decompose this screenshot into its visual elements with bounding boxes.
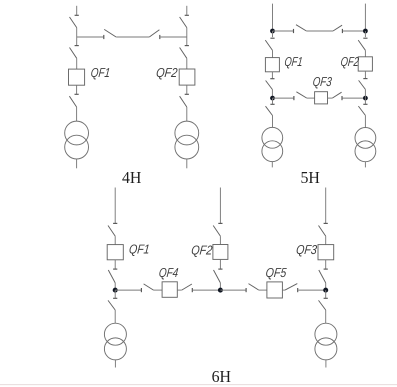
transformer T 6H right: [315, 323, 337, 345]
disconnect switch 6H right bus-side (blade): [319, 270, 326, 283]
disconnect switch 6H left bus-side (blade): [108, 270, 115, 283]
circuit breaker QF2 (4H): [179, 69, 195, 85]
disconnect switch 6H QF4 right (contact tick): [191, 288, 193, 292]
wire 5H left to transformer: [272, 116, 274, 128]
circuit breaker QF1 (5H): [265, 58, 279, 72]
wire 5H right below lower node: [364, 98, 366, 104]
disconnect switch 4H left upper (blade): [70, 17, 77, 28]
disconnect switch 6H right upper (blade): [319, 226, 326, 237]
wire 6H left below breaker: [114, 260, 116, 269]
wire 5H upper tie right segment: [343, 30, 366, 32]
disconnect switch 4H tie left (contact tick): [103, 35, 105, 39]
wire 4H left transformer tail: [76, 159, 78, 168]
wire 6H into QF5: [259, 289, 267, 291]
wire 4H tie middle segment: [116, 36, 149, 38]
disconnect switch 5H right upper (contact tick): [363, 37, 367, 39]
node 5H lower-right junction: [363, 96, 368, 101]
node 6H middle bus junction: [218, 288, 223, 293]
wire 4H right to tie node: [186, 28, 188, 46]
wire 5H right below QF2: [364, 71, 366, 78]
wire 6H middle incoming feeder: [219, 188, 221, 224]
wire 6H left to transformer: [114, 310, 116, 323]
wire 6H bus left-middle segment: [193, 289, 221, 291]
circuit breaker QF1 (4H): [69, 69, 85, 85]
transformer T 5H right: [355, 127, 376, 148]
svg-text:QF1: QF1: [284, 54, 304, 69]
svg-text:QF3: QF3: [312, 74, 333, 89]
disconnect switch 5H upper tie left (contact tick): [293, 29, 295, 33]
wire 4H right below breaker: [186, 85, 188, 94]
svg-text:QF1: QF1: [90, 65, 111, 80]
disconnect switch 5H right lower (blade): [358, 106, 365, 115]
wire 5H right into QF2: [364, 50, 366, 57]
wire 5H lower tie left segment: [273, 97, 294, 99]
disconnect switch 5H upper tie right (contact tick): [341, 29, 343, 33]
wire 6H right below bus node: [325, 290, 327, 298]
disconnect switch 5H lower tie right (contact tick): [341, 96, 343, 100]
wire 4H left below breaker: [76, 85, 78, 94]
circuit breaker QF3 (5H): [315, 92, 328, 104]
svg-text:QF2: QF2: [155, 65, 178, 80]
wire 4H left to tie node: [76, 28, 78, 46]
wire 4H right into breaker: [186, 58, 188, 69]
wire 6H middle into breaker: [219, 236, 221, 245]
wire 5H right below upper node: [364, 31, 366, 37]
disconnect switch 6H right bus-side (contact tick): [324, 268, 328, 270]
wire 6H bus right segment: [298, 289, 325, 291]
disconnect switch 5H lower tie right (blade): [332, 92, 341, 98]
wire 6H into QF4: [154, 289, 163, 291]
wire 5H lower tie out of QF3: [328, 97, 333, 99]
wire 6H left into breaker: [114, 236, 116, 245]
disconnect switch 6H left upper (contact tick): [113, 222, 117, 224]
circuit breaker QF3 (6H): [318, 245, 334, 260]
wire 5H lower tie right segment: [343, 97, 366, 99]
disconnect switch 6H QF5 right (contact tick): [297, 288, 299, 292]
node 5H upper-left junction: [270, 29, 275, 34]
svg-text:QF1: QF1: [128, 241, 150, 256]
circuit breaker QF2 (5H): [358, 57, 372, 71]
disconnect switch 5H right middle (contact tick): [363, 78, 367, 80]
wire 4H left incoming stub: [76, 6, 78, 15]
disconnect switch 5H left upper (contact tick): [270, 37, 274, 39]
wire 6H left incoming feeder: [114, 188, 116, 224]
wire 6H out of QF4: [177, 289, 181, 291]
wire 4H left into breaker: [76, 58, 78, 69]
disconnect switch 6H right transformer-side (blade): [319, 300, 326, 310]
disconnect switch 4H right upper (contact tick): [185, 14, 189, 16]
disconnect switch 4H right lower (blade): [180, 48, 187, 59]
disconnect switch 4H right transformer-side (blade): [180, 96, 187, 107]
circuit breaker QF5 (6H): [267, 282, 283, 298]
disconnect switch 6H left bus-side (contact tick): [113, 268, 117, 270]
svg-text:6H: 6H: [212, 367, 231, 386]
disconnect switch 6H QF4 left (contact tick): [140, 288, 142, 292]
wire 5H left to lower node: [271, 90, 273, 99]
disconnect switch 4H tie left (blade): [104, 29, 116, 37]
disconnect switch 6H middle bus-side (blade): [214, 270, 221, 283]
wire 5H lower tie into QF3: [307, 97, 315, 99]
disconnect switch 5H upper tie right (blade): [333, 25, 342, 31]
disconnect switch 4H right transformer-side (contact tick): [185, 93, 189, 95]
svg-text:4H: 4H: [122, 168, 141, 187]
disconnect switch 6H middle upper (blade): [213, 226, 220, 237]
wire 5H right incoming stub: [364, 4, 366, 31]
disconnect switch 4H left lower (contact tick): [75, 45, 79, 47]
wire 6H right below breaker: [325, 260, 327, 269]
disconnect switch 5H upper tie left (blade): [296, 25, 306, 31]
node 6H right bus junction: [323, 288, 328, 293]
disconnect switch 6H right upper (contact tick): [324, 222, 328, 224]
wire 4H right incoming stub: [186, 6, 188, 15]
svg-text:QF2: QF2: [191, 242, 214, 257]
transformer T 6H left: [104, 323, 126, 345]
disconnect switch 5H left upper (blade): [265, 40, 272, 50]
wire 5H left incoming stub: [272, 4, 274, 31]
wire 5H left below QF1: [271, 72, 273, 79]
node 6H left bus junction: [113, 288, 118, 293]
disconnect switch 6H left upper (blade): [108, 226, 115, 237]
disconnect switch 5H left middle (blade): [266, 81, 273, 90]
wire 6H left below bus node: [114, 290, 116, 298]
wire 5H left below lower node: [272, 98, 274, 104]
wire 5H upper tie middle segment: [306, 30, 333, 32]
disconnect switch 4H tie right (contact tick): [159, 35, 161, 39]
wire 6H out of QF5: [282, 289, 285, 291]
disconnect switch 5H left lower (blade): [266, 106, 273, 115]
wire 6H right incoming feeder: [325, 188, 327, 224]
disconnect switch 6H left transformer-side (contact tick): [113, 297, 117, 299]
wire 4H right to transformer: [186, 107, 188, 121]
wire 4H left to transformer: [76, 107, 78, 121]
wire 4H right transformer tail: [186, 159, 188, 168]
wire 6H middle to bus node: [219, 283, 221, 290]
transformer T 4H right: [175, 121, 199, 145]
wire 6H middle below breaker: [219, 259, 221, 268]
disconnect switch 6H QF5 right (blade): [285, 284, 297, 291]
wire 6H left to bus node: [114, 283, 116, 290]
disconnect switch 6H right transformer-side (contact tick): [324, 297, 328, 299]
wire 6H right into breaker: [325, 236, 327, 245]
svg-text:QF2: QF2: [340, 54, 360, 69]
disconnect switch 4H left transformer-side (contact tick): [75, 93, 79, 95]
wire 5H right to transformer: [364, 115, 366, 127]
disconnect switch 5H lower tie left (blade): [296, 92, 306, 98]
wire 5H right to lower node: [364, 89, 366, 98]
wire 6H bus left segment: [115, 289, 141, 291]
wire 4H tie right segment: [160, 36, 187, 38]
wire 5H left transformer tail: [271, 162, 273, 168]
node 5H lower-left junction: [270, 96, 275, 101]
disconnect switch 4H left transformer-side (blade): [69, 96, 76, 107]
wire 5H left into QF1: [272, 50, 274, 57]
svg-text:QF4: QF4: [158, 265, 179, 280]
circuit breaker QF4 (6H): [162, 282, 177, 298]
disconnect switch 5H left lower (contact tick): [270, 103, 274, 105]
bottom faint rule: [0, 384, 397, 386]
disconnect switch 6H middle bus-side (contact tick): [218, 268, 222, 270]
disconnect switch 6H QF4 right (blade): [182, 284, 192, 290]
disconnect switch 5H lower tie left (contact tick): [293, 96, 295, 100]
disconnect switch 4H left upper (contact tick): [75, 14, 79, 16]
wire 6H right transformer tail: [325, 360, 327, 368]
wire 5H right transformer tail: [364, 162, 366, 168]
disconnect switch 5H left middle (contact tick): [270, 78, 274, 80]
disconnect switch 6H QF4 left (blade): [144, 284, 154, 290]
wire 6H right to bus node: [325, 283, 327, 290]
transformer T 5H left: [262, 127, 283, 148]
transformer T 4H left: [65, 121, 89, 145]
disconnect switch 6H QF5 left (blade): [249, 284, 259, 291]
svg-text:5H: 5H: [301, 168, 320, 187]
wire 5H left below upper node: [272, 31, 274, 37]
disconnect switch 4H right upper (blade): [180, 17, 187, 28]
wire 6H left transformer tail: [114, 360, 116, 368]
wire 6H right to transformer: [325, 310, 327, 323]
disconnect switch 5H right upper (blade): [358, 40, 365, 50]
disconnect switch 5H right middle (blade): [359, 80, 366, 89]
wire 6H bus middle segment: [220, 289, 246, 291]
disconnect switch 5H right lower (contact tick): [363, 103, 367, 105]
wire 5H upper tie left segment: [273, 30, 294, 32]
disconnect switch 6H left transformer-side (blade): [108, 300, 115, 310]
circuit breaker QF1 (6H): [107, 245, 123, 260]
disconnect switch 4H right lower (contact tick): [185, 45, 189, 47]
node 5H upper-right junction: [363, 29, 368, 34]
disconnect switch 6H middle upper (contact tick): [218, 222, 222, 224]
disconnect switch 4H left lower (blade): [70, 48, 77, 59]
svg-text:QF3: QF3: [295, 242, 318, 257]
wire 4H tie left segment: [77, 36, 104, 38]
svg-text:QF5: QF5: [265, 265, 288, 280]
disconnect switch 6H QF5 left (contact tick): [245, 288, 247, 292]
disconnect switch 4H tie right (blade): [149, 30, 159, 37]
circuit breaker QF2 (6H): [213, 245, 228, 260]
